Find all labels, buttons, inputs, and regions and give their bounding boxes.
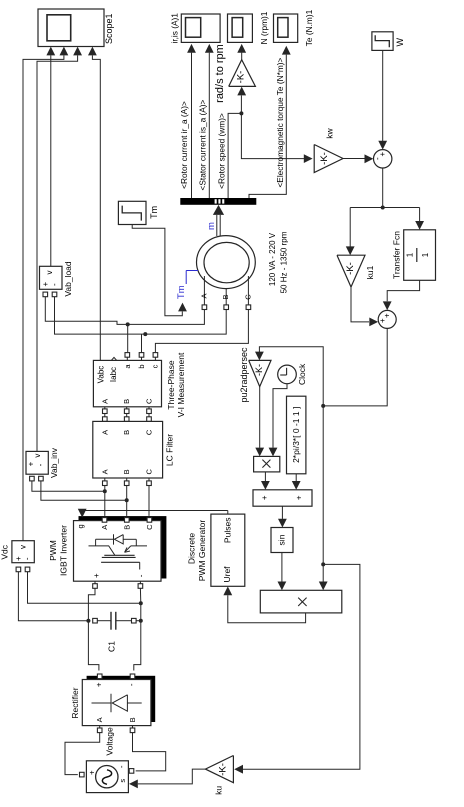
svg-text:-K-: -K- bbox=[218, 763, 229, 776]
wire loop to gain ku bbox=[243, 564, 360, 769]
wire rectifier A to source plus bbox=[65, 733, 100, 775]
clock bbox=[278, 365, 297, 384]
machine terminal C bbox=[247, 276, 249, 305]
svg-text:C: C bbox=[145, 429, 154, 435]
svg-text:-: - bbox=[137, 574, 146, 577]
wire rail to rectifier plus bbox=[88, 621, 99, 671]
machine terminal A bbox=[203, 276, 205, 305]
svg-text:v: v bbox=[33, 454, 42, 458]
svg-text:rad/s to rpm: rad/s to rpm bbox=[214, 44, 226, 103]
svg-text:Vabc: Vabc bbox=[96, 366, 105, 384]
svg-text:+: + bbox=[378, 152, 387, 157]
svg-text:B: B bbox=[128, 717, 137, 722]
product 1 bbox=[254, 456, 280, 472]
svg-text:Rectifier: Rectifier bbox=[70, 687, 80, 718]
svg-text:C: C bbox=[145, 524, 154, 530]
svg-text:<Electromagnetic torque Te (N*: <Electromagnetic torque Te (N*m)> bbox=[275, 58, 285, 188]
signal Rotor current ir_a bbox=[191, 53, 193, 198]
svg-text:-: - bbox=[127, 683, 136, 686]
wire phase b bbox=[55, 297, 227, 334]
wire sin to product2 bbox=[281, 553, 283, 582]
step source Tm bbox=[118, 201, 146, 224]
scope Te (N.m)1 bbox=[274, 14, 298, 42]
arrows into ir,is scope bbox=[187, 44, 196, 53]
scope ir,is (A)1 bbox=[181, 14, 220, 42]
LC bottom ports bbox=[103, 481, 108, 486]
machine port Tm label bbox=[186, 270, 198, 272]
inverter igbt transistor icon bbox=[89, 546, 115, 555]
sum junction speed bbox=[374, 150, 392, 168]
wire product2 to Uref bbox=[228, 595, 306, 623]
wire Transfer Fcn to sum2 bbox=[387, 280, 419, 301]
machine measurement bus m bbox=[213, 205, 224, 215]
wire pulses to g bbox=[82, 510, 228, 512]
wire ku1 to sum2 bbox=[351, 287, 369, 322]
wire pu2radpersec to product1 bbox=[259, 387, 261, 448]
svg-text:<Rotor speed (wm)>: <Rotor speed (wm)> bbox=[216, 113, 226, 189]
svg-text:<Rotor current ir_a (A)>: <Rotor current ir_a (A)> bbox=[179, 101, 189, 189]
wire Vab_inv minus tap bbox=[41, 481, 127, 500]
svg-text:V-I Measurement: V-I Measurement bbox=[176, 352, 186, 417]
svg-text:-: - bbox=[50, 283, 59, 286]
svg-text:C1: C1 bbox=[106, 641, 116, 652]
wire Vab_inv plus tap bbox=[32, 481, 105, 491]
svg-text:Clock: Clock bbox=[297, 363, 307, 385]
svg-text:B: B bbox=[221, 294, 230, 299]
block PWM IGBT Inverter bbox=[79, 516, 167, 578]
svg-text:IGBT Inverter: IGBT Inverter bbox=[59, 525, 69, 576]
wire Vdc v to Scope1 bbox=[23, 55, 64, 540]
arrows into Scope1 bbox=[46, 47, 55, 56]
bus selector bar bbox=[180, 198, 256, 205]
gain rad/s to rpm bbox=[229, 60, 256, 87]
svg-text:Scope1: Scope1 bbox=[104, 13, 114, 44]
block Rectifier bbox=[87, 676, 156, 722]
svg-text:A: A bbox=[100, 399, 109, 404]
constant 2*pi/3 bbox=[287, 396, 306, 474]
wire inverter minus rail bbox=[134, 588, 141, 670]
voltage measurement Vab_load bbox=[40, 266, 63, 289]
step source W bbox=[372, 32, 393, 51]
svg-text:+: + bbox=[260, 495, 269, 500]
wire tap to port b bbox=[141, 334, 143, 352]
svg-text:Tm: Tm bbox=[176, 285, 187, 299]
block Transfer Fcn bbox=[404, 230, 436, 280]
signal Stator current is_a bbox=[208, 53, 210, 198]
svg-text:<Stator current is_a (A)>: <Stator current is_a (A)> bbox=[198, 99, 208, 190]
svg-text:-: - bbox=[36, 463, 45, 466]
wire sum2 output bbox=[323, 328, 387, 406]
svg-text:A: A bbox=[100, 469, 109, 474]
wire to pu2radpersec bbox=[259, 347, 323, 406]
rectifier diode icon bbox=[92, 702, 112, 704]
sum block 3 bbox=[253, 490, 312, 506]
scope N (rpm)1 bbox=[228, 14, 253, 42]
svg-text:+: + bbox=[14, 556, 23, 561]
svg-text:C: C bbox=[145, 469, 154, 475]
voltage measurement Vab_inv bbox=[26, 451, 48, 474]
svg-text:+: + bbox=[295, 495, 304, 500]
AC voltage source bbox=[86, 761, 128, 793]
svg-text:B: B bbox=[122, 525, 131, 530]
wire sum3 to sin bbox=[281, 506, 283, 519]
rectifier bottom ports bbox=[97, 728, 102, 733]
wire Vabc to Scope1 bbox=[92, 55, 100, 360]
svg-text:v: v bbox=[19, 545, 28, 549]
svg-text:1: 1 bbox=[421, 252, 430, 257]
svg-text:Vab_load: Vab_load bbox=[63, 261, 73, 297]
svg-text:g: g bbox=[76, 524, 85, 528]
wire Vdc minus to dc rail bbox=[28, 572, 141, 604]
svg-text:s: s bbox=[118, 779, 127, 783]
wire constant to sum3 bbox=[295, 474, 297, 481]
wire kw to sum bbox=[343, 158, 365, 160]
capacitor C1 bbox=[93, 618, 98, 623]
wire to product2 and ku loop bbox=[322, 406, 324, 582]
svg-text:ku: ku bbox=[214, 786, 224, 795]
wire LC C to inverter C bbox=[148, 486, 150, 516]
wire tap to port a bbox=[127, 324, 129, 352]
wire to gain ku1 bbox=[349, 208, 351, 247]
svg-text:Three-Phase: Three-Phase bbox=[166, 360, 176, 409]
svg-text:PWM Generator: PWM Generator bbox=[197, 520, 207, 582]
wire phase a bbox=[45, 297, 204, 325]
svg-text:c: c bbox=[151, 364, 160, 368]
svg-text:ir,is (A)1: ir,is (A)1 bbox=[170, 13, 180, 44]
svg-text:C: C bbox=[145, 398, 154, 404]
svg-text:-: - bbox=[117, 765, 126, 768]
wire sum output split bbox=[382, 168, 384, 208]
svg-text:A: A bbox=[95, 717, 104, 722]
signal Electromagnetic torque bbox=[249, 55, 286, 198]
wire LC A to inverter A bbox=[104, 486, 106, 516]
svg-text:50 Hz - 1350 rpm: 50 Hz - 1350 rpm bbox=[280, 231, 289, 293]
asynchronous machine bbox=[197, 236, 256, 289]
gain ku1 bbox=[337, 255, 365, 287]
svg-text:A: A bbox=[199, 293, 208, 298]
wire phase c bbox=[155, 310, 248, 353]
svg-text:+: + bbox=[27, 461, 36, 466]
svg-text:-K-: -K- bbox=[319, 152, 330, 165]
wire LC B to inverter B bbox=[126, 486, 128, 516]
svg-text:pu2radpersec: pu2radpersec bbox=[239, 347, 249, 403]
svg-text:A: A bbox=[100, 525, 109, 530]
svg-text:+: + bbox=[378, 318, 387, 323]
svg-text:-K-: -K- bbox=[236, 71, 247, 84]
svg-text:-K-: -K- bbox=[345, 262, 356, 275]
svg-text:Pulses: Pulses bbox=[223, 518, 233, 544]
svg-text:W: W bbox=[395, 38, 405, 47]
svg-text:b: b bbox=[137, 364, 146, 368]
wire Vab_load v to Scope1 bbox=[50, 55, 52, 266]
wire gain to N scope bbox=[241, 53, 243, 60]
inverter bottom ports bbox=[93, 584, 98, 589]
wire clock to product1 bbox=[273, 384, 287, 448]
svg-text:Voltage: Voltage bbox=[105, 727, 115, 756]
svg-text:+: + bbox=[41, 282, 50, 287]
wire wm to rad/s gain bbox=[240, 96, 242, 114]
svg-text:C: C bbox=[243, 294, 252, 300]
sum junction 2 bbox=[378, 310, 396, 328]
wire W to sum bbox=[382, 50, 384, 141]
svg-text:Uref: Uref bbox=[222, 566, 232, 583]
svg-text:N (rpm)1: N (rpm)1 bbox=[259, 11, 269, 44]
machine terminal B bbox=[225, 289, 227, 305]
svg-text:sin: sin bbox=[277, 534, 287, 545]
svg-text:+: + bbox=[95, 682, 104, 687]
svg-text:v: v bbox=[45, 271, 54, 275]
signal Rotor speed wm bbox=[228, 113, 241, 198]
svg-text:Transfer Fcn: Transfer Fcn bbox=[392, 231, 402, 279]
svg-text:2*pi/3*[ 0 -1 1 ]: 2*pi/3*[ 0 -1 1 ] bbox=[291, 407, 301, 463]
input g arrow bbox=[78, 509, 87, 518]
wire Tm to machine bbox=[132, 225, 182, 316]
wire ku to source s bbox=[138, 769, 206, 784]
svg-text:B: B bbox=[122, 430, 131, 435]
svg-text:Vab_inv: Vab_inv bbox=[49, 447, 59, 478]
scope Scope1 bbox=[38, 9, 104, 47]
svg-text:B: B bbox=[122, 469, 131, 474]
V-I bottom ports bbox=[103, 409, 108, 414]
wire inverter plus to rail bbox=[88, 588, 95, 620]
svg-text:120 VA - 220 V: 120 VA - 220 V bbox=[268, 232, 277, 286]
wire Vdc plus to dc rail bbox=[18, 572, 90, 621]
block LC Filter bbox=[103, 417, 108, 422]
block Three-Phase V-I Measurement bbox=[93, 360, 161, 406]
svg-text:m: m bbox=[206, 222, 217, 230]
svg-text:kw: kw bbox=[325, 128, 335, 139]
wire rectifier B to source minus bbox=[133, 733, 166, 771]
gain kw bbox=[314, 145, 343, 173]
svg-text:Discrete: Discrete bbox=[186, 533, 196, 564]
svg-text:+: + bbox=[382, 313, 391, 318]
inverter igbt diode icon bbox=[96, 538, 114, 540]
wire product1 to sum3 bbox=[264, 472, 266, 481]
svg-text:+: + bbox=[88, 770, 97, 775]
product 2 bbox=[260, 590, 342, 613]
svg-text:-: - bbox=[23, 557, 32, 560]
svg-text:+: + bbox=[92, 573, 101, 578]
svg-text:-K-: -K- bbox=[254, 364, 264, 376]
input s arrow bbox=[129, 780, 138, 789]
svg-text:B: B bbox=[122, 399, 131, 404]
wire wm to kw gain bbox=[241, 113, 304, 158]
block sin bbox=[271, 528, 293, 553]
svg-text:Te (N.m)1: Te (N.m)1 bbox=[304, 9, 314, 46]
wire Vab_inv v to Scope1 bbox=[37, 55, 78, 451]
voltage measurement Vdc bbox=[12, 541, 34, 563]
gain ku bbox=[205, 756, 233, 783]
svg-text:Tm: Tm bbox=[149, 206, 159, 219]
svg-text:Vdc: Vdc bbox=[0, 544, 9, 559]
gain pu2radpersec bbox=[249, 360, 271, 386]
svg-text:Iabc: Iabc bbox=[109, 367, 118, 382]
svg-text:PWM: PWM bbox=[48, 540, 58, 561]
wire Pulses output bbox=[227, 511, 229, 515]
svg-text:ku1: ku1 bbox=[365, 265, 375, 279]
wire to Transfer Fcn bbox=[419, 208, 421, 222]
block Discrete PWM Generator bbox=[211, 514, 245, 586]
svg-text:1: 1 bbox=[406, 252, 415, 257]
output marker Iabc bbox=[112, 357, 117, 360]
svg-text:A: A bbox=[100, 430, 109, 435]
svg-text:LC Filter: LC Filter bbox=[164, 434, 174, 466]
svg-text:-: - bbox=[373, 157, 382, 160]
